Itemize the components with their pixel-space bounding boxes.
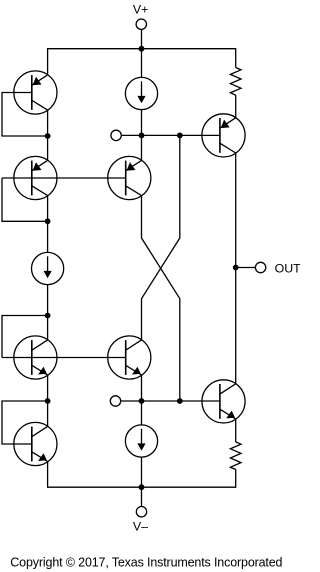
transistor Q5 (PNP) xyxy=(108,156,151,199)
svg-text:OUT: OUT xyxy=(275,261,300,275)
transistor Q8 (NPN) xyxy=(202,380,245,423)
transistor Q6 (NPN) xyxy=(108,336,151,379)
wire left rail top xyxy=(47,48,49,75)
wire Q7 collector to Q8 collector xyxy=(235,153,237,384)
wire input junction to Q5 emitter xyxy=(141,135,143,160)
wire Q4 base loop xyxy=(2,401,48,444)
wire Q1 collector to Q2 emitter xyxy=(47,110,49,160)
wire top rail to R1 xyxy=(235,48,237,67)
node input line / cross wire junction xyxy=(177,133,183,139)
transistor Q4 (NPN, diode-connected) xyxy=(14,422,57,465)
wire Q5 collector crossing to Q8 base line xyxy=(142,196,180,401)
wire Q3 base loop xyxy=(2,316,48,358)
wire top rail xyxy=(48,48,236,50)
node Q3 collector junction xyxy=(45,313,51,319)
current source I1 xyxy=(31,252,63,284)
wire R1 to Q7 emitter xyxy=(235,95,237,118)
wire input junction to current source I3 xyxy=(141,401,143,425)
terminal IN+ (non-inverting input) xyxy=(110,396,120,406)
wire Q8 emitter to R2 xyxy=(235,419,237,442)
wire Q6 emitter to non-inverting input line xyxy=(141,375,143,401)
node Q1 collector junction xyxy=(45,133,51,139)
node V- rail junction xyxy=(139,484,145,490)
svg-text:V–: V– xyxy=(133,520,148,534)
terminal IN- (inverting input) xyxy=(111,130,121,140)
terminal OUT xyxy=(255,262,265,272)
resistor R1 xyxy=(230,68,241,96)
V- terminal xyxy=(136,507,146,517)
current source I3 xyxy=(125,425,157,457)
wire Q3 base to Q6 base xyxy=(2,357,125,359)
wire I2 to inverting input line xyxy=(141,110,143,136)
node Q4 collector junction xyxy=(45,398,51,404)
node input line / I2 junction xyxy=(139,133,145,139)
wire V+ stub xyxy=(141,29,143,48)
wire Q7 base line crossing to Q6 collector xyxy=(142,135,180,340)
wire R2 to V- rail xyxy=(142,470,236,488)
wire top rail to current source I2 xyxy=(141,49,143,78)
wire V- stub xyxy=(141,487,143,506)
current source I2 xyxy=(125,77,157,109)
wire Q2 base loop xyxy=(2,178,48,221)
node top rail junction xyxy=(139,46,145,52)
resistor R2 xyxy=(230,442,241,470)
wire Q2 base to Q5 base xyxy=(2,177,125,179)
wire I1 to Q3 collector xyxy=(47,285,49,340)
wire OUT stub xyxy=(236,267,256,269)
transistor Q2 (PNP, diode-connected) xyxy=(14,156,57,199)
V+ terminal xyxy=(136,19,146,29)
node input line / Q6 emitter junction xyxy=(139,398,145,404)
node input line / cross wire junction 2 xyxy=(177,398,183,404)
svg-text:V+: V+ xyxy=(133,3,149,17)
transistor Q3 (NPN, diode-connected) xyxy=(14,336,57,379)
node OUT junction xyxy=(233,265,239,271)
wire non-inverting input line to Q8 base xyxy=(121,400,220,402)
wire Q2 collector to current source I1 xyxy=(47,196,49,253)
wire I3 to V- rail xyxy=(141,457,143,487)
transistor Q7 (PNP) xyxy=(202,114,245,157)
wire inverting input line to Q7 base xyxy=(121,134,219,136)
svg-text:Copyright © 2017, Texas Instru: Copyright © 2017, Texas Instruments Inco… xyxy=(10,556,282,570)
wire Q4 emitter to V- rail xyxy=(48,462,142,488)
wire Q3 emitter to Q4 collector xyxy=(47,375,49,426)
node Q2 collector junction xyxy=(45,218,51,224)
wire Q1 base loop xyxy=(2,93,48,137)
transistor Q1 (PNP, diode-connected) xyxy=(14,71,57,114)
